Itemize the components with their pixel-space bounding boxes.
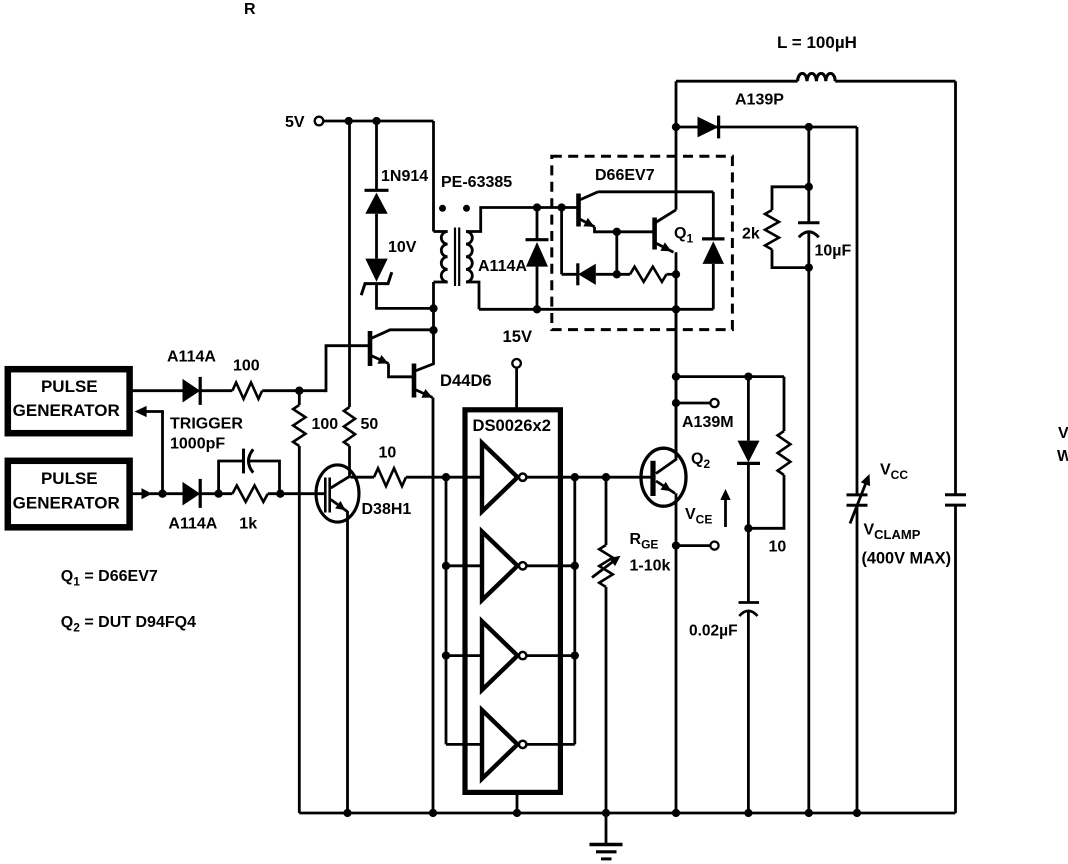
wire output 4 bbox=[526, 743, 574, 746]
wire snubber vertical lower bbox=[807, 232, 810, 813]
label 400V MAX bbox=[862, 550, 952, 568]
label 10V bbox=[388, 239, 417, 256]
wire V_CC vertical upper bbox=[856, 127, 859, 495]
wire V_CC vertical lower bbox=[856, 505, 859, 813]
diode A139M bbox=[737, 377, 760, 603]
diode 1N914 bbox=[365, 190, 389, 214]
wire 5V rail bbox=[323, 120, 433, 123]
buffer U4 triangle bbox=[482, 710, 526, 779]
svg-text:VCE: VCE bbox=[685, 506, 712, 527]
node input 1 bbox=[442, 473, 450, 481]
label D38H1 bbox=[362, 501, 412, 518]
resistor Q1 internal bbox=[630, 267, 666, 282]
wire to lower diode bbox=[150, 492, 183, 495]
wire resistor to corner bbox=[262, 389, 326, 392]
node bus DS0026 bbox=[513, 809, 521, 817]
svg-text:Q1 = D66EV7: Q1 = D66EV7 bbox=[61, 568, 158, 589]
wire main vertical through dashed box bbox=[675, 309, 678, 403]
wire diode to resistor bbox=[200, 389, 232, 392]
transistor Q1 collector bbox=[656, 210, 676, 223]
node cap right bbox=[276, 490, 284, 498]
wire top rail left bbox=[676, 80, 798, 83]
wire A139P rail bbox=[676, 126, 857, 129]
wire input 2 bbox=[446, 564, 482, 567]
svg-text:0.02µF: 0.02µF bbox=[689, 623, 738, 640]
node 5V-a bbox=[345, 117, 353, 125]
wire entry drop to diode row bbox=[560, 208, 563, 275]
ground bus bbox=[299, 812, 955, 815]
svg-text:D44D6: D44D6 bbox=[440, 371, 492, 390]
svg-text:D66EV7: D66EV7 bbox=[595, 167, 655, 184]
partial glyph right edge a bbox=[1058, 425, 1068, 442]
svg-text:D38H1: D38H1 bbox=[362, 501, 412, 518]
transistor D38H1 collector bbox=[331, 476, 351, 488]
node secondary top bbox=[533, 203, 541, 211]
label 1-10k bbox=[630, 557, 671, 574]
wire Q1 emitter down bbox=[675, 252, 678, 458]
svg-text:10µF: 10µF bbox=[815, 243, 852, 260]
svg-text:A114A: A114A bbox=[168, 515, 217, 532]
transistor D44D6 collector bbox=[415, 330, 434, 371]
resistor 100 vertical bbox=[293, 405, 305, 446]
svg-text:(400V MAX): (400V MAX) bbox=[862, 550, 952, 568]
svg-text:100: 100 bbox=[233, 358, 260, 375]
svg-text:Q2 = DUT D94FQ4: Q2 = DUT D94FQ4 bbox=[61, 614, 196, 635]
svg-text:10: 10 bbox=[769, 539, 787, 556]
label Q1 = D66EV7 bbox=[61, 568, 158, 589]
svg-text:Q2: Q2 bbox=[691, 450, 710, 471]
wire 5V down to primary bbox=[432, 121, 435, 232]
node after 100 resistor bbox=[295, 387, 303, 395]
arrow variable V_CC bbox=[850, 474, 870, 524]
wire PG2 output bbox=[131, 492, 142, 495]
wire 15V to DS0026 bbox=[515, 368, 518, 408]
wire D44D6 emitter down to ground bus bbox=[432, 398, 435, 814]
node A139M terminal junction bbox=[672, 399, 680, 407]
svg-text:10V: 10V bbox=[388, 239, 417, 256]
node cap left bbox=[214, 490, 222, 498]
ground symbol bbox=[590, 845, 623, 859]
transistor T1 collector bbox=[371, 330, 434, 339]
wire secondary bottom rail bbox=[479, 308, 713, 311]
node bus V_CC bbox=[853, 809, 861, 817]
diode Q1 reverse (inside box) bbox=[578, 263, 596, 285]
resistor 50 vertical bbox=[344, 407, 355, 446]
phasing dot secondary bbox=[463, 205, 470, 212]
node Q1 emitter row bbox=[672, 270, 680, 278]
svg-text:W: W bbox=[1057, 448, 1068, 465]
svg-text:R: R bbox=[244, 1, 256, 18]
buffer U2 triangle bbox=[482, 532, 526, 601]
svg-text:1N914: 1N914 bbox=[381, 168, 428, 185]
transistor Q1 base bar bbox=[652, 218, 657, 250]
transistor Q1a base bar bbox=[576, 194, 581, 227]
node bottom rail junction bbox=[672, 305, 680, 313]
node output 3 bbox=[571, 651, 579, 659]
wire top rail right bbox=[835, 80, 955, 83]
node input 2 bbox=[442, 562, 450, 570]
capacitor V_CLAMP bulk bbox=[945, 495, 966, 505]
label D44D6 bbox=[440, 371, 492, 390]
node output 2 bbox=[571, 562, 579, 570]
label 15V bbox=[503, 327, 533, 346]
wire primary bottom to node bbox=[432, 282, 435, 330]
wire secondary into box bbox=[0, 0, 1, 1]
label A114A (lower diode) bbox=[168, 515, 217, 532]
wire V_CE terminal bbox=[676, 544, 710, 547]
label Q2 = DUT D94FQ4 bbox=[61, 614, 196, 635]
node secondary bottom bbox=[533, 305, 541, 313]
svg-text:Q1: Q1 bbox=[674, 225, 693, 246]
node bus R_GE bbox=[602, 809, 610, 817]
inductor L bbox=[798, 73, 836, 81]
buffer U3 triangle bbox=[482, 621, 526, 690]
node output 1 bbox=[571, 473, 579, 481]
partial letter R (cropped figure label) bbox=[244, 1, 256, 18]
svg-text:PULSE: PULSE bbox=[41, 469, 98, 488]
label 10uF bbox=[815, 243, 852, 260]
wire ground stub bbox=[605, 813, 608, 844]
diode A114A (lower) bbox=[183, 479, 201, 508]
wire input 4 bbox=[446, 743, 482, 746]
resistor R_GE (variable) bbox=[592, 545, 621, 587]
terminal A139M bbox=[710, 399, 718, 407]
terminal 5V bbox=[315, 117, 324, 126]
wire main vertical to Q2 bbox=[675, 403, 678, 459]
wire diode row left bbox=[562, 273, 579, 276]
node 2k bottom bbox=[805, 263, 813, 271]
node R_GE top bbox=[602, 473, 610, 481]
transistor Q2 collector bbox=[656, 459, 677, 474]
node box entry bbox=[557, 203, 565, 211]
label L = 100uH bbox=[777, 33, 857, 52]
node snubber top bbox=[805, 123, 813, 131]
zener 10V bbox=[361, 259, 392, 296]
wire DS0026 ground lead bbox=[516, 793, 519, 813]
wire right cap vertical lower bbox=[954, 505, 957, 813]
svg-text:1k: 1k bbox=[239, 515, 257, 532]
svg-text:A139M: A139M bbox=[682, 414, 734, 431]
node diode-resistor row junction bbox=[613, 270, 621, 278]
wire PG1 output to diode bbox=[131, 389, 183, 392]
wire diode to resistor row bbox=[596, 273, 630, 276]
svg-text:VCLAMP: VCLAMP bbox=[864, 521, 921, 542]
diode A139P bbox=[698, 116, 719, 139]
label A114A (clamp diode) bbox=[478, 258, 527, 275]
dashed box D66EV7 bbox=[552, 156, 733, 329]
diode A114A clamp bbox=[526, 208, 549, 310]
svg-text:50: 50 bbox=[361, 416, 379, 433]
transistor Q2 emitter bbox=[656, 481, 675, 493]
node input 3 bbox=[442, 651, 450, 659]
diode A114A (upper) bbox=[183, 377, 201, 405]
wire A139M terminal bbox=[676, 402, 710, 405]
resistor 100 (horizontal) bbox=[232, 383, 262, 399]
node bus Q2 bbox=[672, 809, 680, 817]
label DS0026x2 bbox=[473, 416, 551, 435]
wire right cap vertical upper bbox=[954, 81, 957, 494]
transistor Q1a collector bbox=[580, 192, 599, 200]
resistor 1k bbox=[232, 486, 267, 502]
label V_CE bbox=[685, 506, 712, 527]
internal diode branch (right) bbox=[702, 192, 725, 309]
transistor D44D6 base bar bbox=[412, 364, 417, 398]
transistor D38H1 emitter bbox=[331, 500, 348, 512]
svg-text:A114A: A114A bbox=[478, 258, 527, 275]
node V_CE terminal junction bbox=[672, 541, 680, 549]
label 1000pF bbox=[170, 436, 225, 453]
wire diode to 1k bbox=[200, 492, 232, 495]
label 100 (horizontal resistor) bbox=[233, 358, 260, 375]
capacitor 0.02uF bbox=[739, 603, 760, 617]
resistor 100 vertical leads bbox=[298, 391, 301, 813]
label 10 (gate drive) bbox=[379, 444, 397, 461]
label D66EV7 bbox=[595, 167, 655, 184]
wire input 3 bbox=[446, 654, 482, 657]
label V_CLAMP bbox=[864, 521, 921, 542]
transistor Q2 body bbox=[641, 448, 686, 506]
label 2k bbox=[742, 225, 760, 242]
IC DS0026x2 box bbox=[465, 410, 560, 793]
partial glyph right edge b bbox=[1057, 448, 1068, 465]
variable source V_CC plates bbox=[847, 495, 868, 505]
wire output 2 bbox=[526, 564, 574, 567]
node bus snubber bbox=[805, 809, 813, 817]
label 10 (clamp) bbox=[769, 539, 787, 556]
wire Q2 emitter down bbox=[675, 493, 678, 813]
wire secondary bottom lead bbox=[466, 282, 479, 309]
input bus vertical bbox=[445, 477, 448, 744]
wire zener to node bbox=[377, 284, 434, 309]
resistor 10 (gate drive) bbox=[374, 468, 406, 486]
svg-text:RGE: RGE bbox=[630, 531, 659, 552]
buffer U1 triangle bbox=[482, 443, 526, 512]
wire secondary top lead bbox=[466, 208, 579, 232]
svg-text:PULSE: PULSE bbox=[41, 377, 98, 396]
svg-text:GENERATOR: GENERATOR bbox=[13, 401, 120, 420]
terminal V_CE bbox=[710, 542, 718, 550]
wire top rail left corner down bbox=[675, 81, 678, 128]
svg-text:1-10k: 1-10k bbox=[630, 557, 671, 574]
node 2k top bbox=[805, 183, 813, 191]
label A139P bbox=[735, 91, 784, 108]
node A139M diode top bbox=[744, 372, 752, 380]
label 0.02uF bbox=[689, 623, 738, 640]
label V_CC bbox=[880, 461, 908, 482]
wire 0.02uF to ground bus bbox=[747, 611, 750, 814]
label Q1 bbox=[674, 225, 693, 246]
capacitor 1000pF bypass loop bbox=[219, 449, 280, 494]
node trigger junction bbox=[158, 490, 166, 498]
transformer PE-63385 primary winding bbox=[434, 232, 448, 283]
wire corner up to base rail bbox=[326, 346, 370, 392]
svg-text:15V: 15V bbox=[503, 327, 533, 346]
pulse generator box PG1 bbox=[8, 369, 130, 433]
resistor 2k branch bbox=[765, 187, 809, 268]
transistor T1 emitter bbox=[371, 355, 414, 377]
svg-text:L = 100µH: L = 100µH bbox=[777, 33, 857, 52]
label PE-63385 bbox=[441, 174, 512, 191]
transistor D44D6 emitter bbox=[415, 389, 433, 398]
trigger arrow into PG1 bbox=[135, 406, 164, 417]
label 1N914 bbox=[381, 168, 428, 185]
transistor Q1a emitter bbox=[580, 218, 655, 232]
svg-text:PE-63385: PE-63385 bbox=[441, 174, 512, 191]
svg-text:VCC: VCC bbox=[880, 461, 908, 482]
wire 10 resistor to DS0026 inputs bbox=[406, 476, 482, 479]
transformer secondary winding bbox=[466, 232, 472, 283]
wire snubber vertical upper bbox=[807, 127, 810, 223]
resistor R_GE leads bbox=[605, 477, 608, 813]
wire D38H1 emitter to ground bus bbox=[346, 511, 349, 813]
label R_GE bbox=[630, 531, 659, 552]
wire output 1 to Q2 gate bbox=[526, 476, 650, 479]
svg-text:100: 100 bbox=[312, 416, 339, 433]
wire 1N914 branch upper bbox=[375, 121, 378, 190]
node Q1 base junction bbox=[613, 228, 621, 236]
svg-text:DS0026x2: DS0026x2 bbox=[473, 416, 551, 435]
svg-text:A114A: A114A bbox=[167, 348, 216, 365]
wire 1k to D38H1 bbox=[268, 492, 326, 495]
svg-text:V: V bbox=[1058, 425, 1068, 442]
wire resistor to emitter node bbox=[667, 273, 677, 276]
svg-text:TRIGGER: TRIGGER bbox=[170, 416, 243, 433]
svg-text:A139P: A139P bbox=[735, 91, 784, 108]
svg-text:10: 10 bbox=[379, 444, 397, 461]
pulse generator box PG2 bbox=[8, 461, 130, 528]
wire between diode and zener bbox=[375, 214, 378, 259]
node 5V-b bbox=[372, 117, 380, 125]
transistor D38H1 body bbox=[316, 465, 359, 522]
capacitor 10uF bbox=[798, 223, 820, 238]
svg-text:GENERATOR: GENERATOR bbox=[13, 494, 120, 513]
transistor T1 base bar bbox=[368, 331, 373, 366]
node collector rail bbox=[429, 326, 437, 334]
svg-text:5V: 5V bbox=[285, 114, 305, 131]
label 1k bbox=[239, 515, 257, 532]
node A139P anode bbox=[672, 123, 680, 131]
arrow on PG2 output bbox=[142, 488, 153, 499]
wire 50 to collector node bbox=[348, 446, 351, 477]
node bus D38H1 bbox=[343, 809, 351, 817]
wire A139M rail bbox=[676, 375, 784, 378]
label A114A (upper diode) bbox=[167, 348, 216, 365]
wire base junction drop bbox=[615, 232, 618, 274]
label A139M bbox=[682, 414, 734, 431]
label TRIGGER bbox=[170, 416, 243, 433]
label 100 (vertical resistor) bbox=[312, 416, 339, 433]
wire trigger vertical bbox=[161, 412, 164, 494]
node A139M rail left bbox=[672, 372, 680, 380]
label 50 bbox=[361, 416, 379, 433]
wire 5V down to 50 resistor bbox=[348, 121, 351, 407]
node transformer bottom / zener bbox=[429, 304, 437, 312]
wire output 3 bbox=[526, 654, 574, 657]
label 5V bbox=[285, 114, 305, 131]
node bus 0.02uF bbox=[744, 809, 752, 817]
wire Q1 collector drop bbox=[675, 127, 678, 210]
transformer core bbox=[455, 228, 459, 287]
wire collector to 10 resistor bbox=[351, 476, 375, 479]
arrow V_CE (up) bbox=[720, 489, 730, 527]
output bus vertical bbox=[573, 477, 576, 744]
transistor Q2 gate bar bbox=[650, 461, 655, 496]
svg-text:1000pF: 1000pF bbox=[170, 436, 225, 453]
node 10 ohm bottom junction bbox=[744, 524, 752, 532]
label Q2 bbox=[691, 450, 710, 471]
transistor D38H1 gate bars bbox=[325, 478, 329, 513]
phasing dot primary bbox=[439, 205, 446, 212]
svg-text:2k: 2k bbox=[742, 225, 760, 242]
resistor 10 (clamp) branch bbox=[748, 377, 790, 529]
node bus D44D6 bbox=[429, 809, 437, 817]
transistor Q1 emitter bbox=[656, 242, 674, 252]
internal top rail bbox=[598, 190, 713, 193]
terminal 15V bbox=[512, 359, 521, 368]
